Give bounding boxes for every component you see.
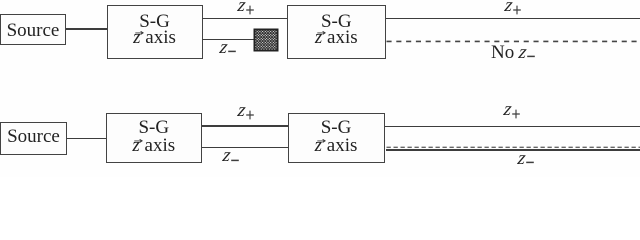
wire: z- beam into beam block (row 1)	[202, 39, 254, 40]
box: Source (row 2)	[0, 122, 67, 156]
node label z- (row 1 middle)	[220, 38, 236, 57]
wire: z+ beam between analyzers (row 2)	[202, 125, 288, 126]
node label z- (row 2 middle)	[223, 146, 239, 165]
beam block (crosshatched absorber)	[253, 28, 279, 52]
wire: z- beam between analyzers (row 2)	[202, 147, 288, 148]
box: Source (row 1)	[0, 14, 66, 45]
wire: faint dashed guide line above z- output (row 2 right)	[386, 146, 640, 149]
wire: Source to first analyzer (row 1)	[66, 28, 107, 29]
wire: dashed line, absent z- beam (row 1 right)	[386, 40, 640, 43]
box: second S-G analyzer, z axis (row 2)	[288, 113, 385, 163]
node label "No z-" (row 1 right)	[491, 43, 535, 62]
node label z+ (row 2 right)	[504, 100, 520, 119]
wire: Source to first analyzer (row 2)	[67, 138, 106, 139]
box: second S-G analyzer, z axis (row 1)	[287, 5, 386, 59]
node label z+ (row 1 right)	[505, 0, 521, 15]
wire: z+ beam between analyzers (row 1)	[202, 18, 287, 19]
wire: z- output beam (row 2 right)	[386, 149, 640, 151]
box: first S-G analyzer, z axis (row 2)	[106, 113, 203, 163]
box: first S-G analyzer, z axis (row 1)	[107, 5, 203, 59]
node label z- (row 2 right)	[518, 149, 534, 168]
node label z+ (row 1 middle)	[238, 0, 254, 15]
wire: z+ output beam (row 1 right)	[386, 18, 640, 19]
wire: z+ output beam (row 2 right)	[385, 126, 640, 127]
node label z+ (row 2 middle)	[238, 101, 254, 120]
